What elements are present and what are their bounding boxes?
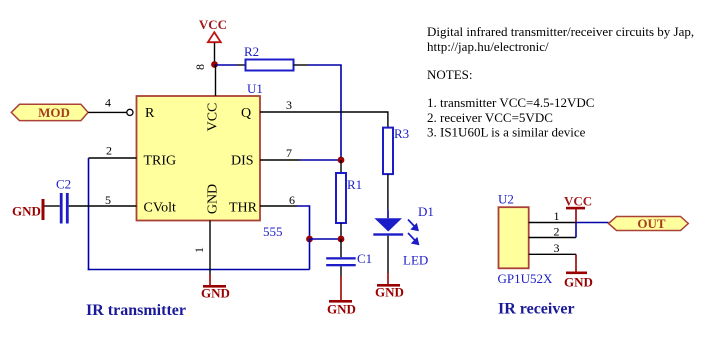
svg-text:2: 2: [554, 225, 560, 239]
wire R3 to LED: [387, 174, 389, 209]
ground GND (pin 1): [201, 285, 230, 301]
wire THR stub: [260, 205, 297, 207]
svg-text:6: 6: [289, 193, 295, 207]
svg-text:Digital infrared transmitter/r: Digital infrared transmitter/receiver ci…: [427, 24, 694, 39]
resistor R2: [244, 44, 294, 71]
wire C2 to CVolt: [69, 205, 137, 207]
svg-text:THR: THR: [229, 201, 258, 216]
svg-text:2: 2: [106, 144, 112, 158]
resistor R1: [336, 173, 362, 223]
svg-text:GND: GND: [201, 286, 230, 301]
wire VCC triangle to junction: [214, 43, 216, 65]
port flag OUT: [609, 216, 689, 231]
svg-text:3: 3: [286, 98, 292, 112]
node VCC junction dot: [211, 61, 218, 68]
wire VCC bar to pin 1: [575, 208, 577, 223]
wire MOD to R bubble: [88, 111, 127, 113]
wire U2 pin 3: [529, 253, 576, 255]
svg-text:VCC: VCC: [206, 103, 221, 132]
wire pin1 to pin2 (blue): [575, 223, 577, 238]
svg-text:1: 1: [192, 247, 206, 253]
svg-text:555: 555: [263, 224, 283, 239]
wire DIS stub: [260, 159, 300, 161]
svg-text:NOTES:: NOTES:: [427, 67, 473, 82]
svg-text:R2: R2: [244, 44, 259, 59]
IC U2 GP1U52X body: [498, 192, 554, 287]
wire bottom feedback horizontal: [88, 269, 310, 271]
svg-text:OUT: OUT: [637, 216, 666, 231]
wire THR to junction: [297, 206, 310, 239]
wire junction to C1: [340, 239, 342, 257]
wire TRIG stub: [89, 157, 137, 159]
wire TRIG feedback vertical: [88, 158, 90, 270]
ground GND (LED): [375, 284, 404, 300]
svg-text:5: 5: [105, 193, 111, 207]
svg-text:VCC: VCC: [564, 194, 592, 209]
svg-text:GND: GND: [12, 204, 41, 219]
ground GND (left, at C2): [12, 199, 45, 220]
node R1/C1 junction dot: [338, 236, 345, 243]
svg-text:U2: U2: [498, 192, 514, 207]
svg-text:GND: GND: [206, 184, 221, 214]
svg-text:MOD: MOD: [38, 105, 70, 120]
svg-text:R: R: [145, 106, 155, 121]
svg-text:http://jap.hu/electronic/: http://jap.hu/electronic/: [427, 39, 549, 54]
wire pin 3 to ground: [575, 254, 577, 272]
svg-text:2. receiver VCC=5VDC: 2. receiver VCC=5VDC: [427, 110, 553, 125]
capacitor C2: [56, 177, 71, 224]
svg-text:LED: LED: [403, 253, 428, 268]
wire DIS to R1: [340, 160, 342, 173]
wire Q pin 3 to R3: [260, 112, 388, 128]
svg-text:CVolt: CVolt: [144, 201, 177, 216]
ground GND (receiver): [564, 272, 593, 290]
resistor R3: [383, 126, 409, 174]
wire IC pin 1 down: [209, 221, 211, 275]
port flag MOD: [11, 104, 88, 120]
wire R2 to DIS (blue): [308, 65, 341, 160]
wire IC VCC pin stub: [215, 65, 217, 97]
svg-text:IR transmitter: IR transmitter: [86, 302, 186, 319]
node THR junction dot: [306, 236, 313, 243]
wire pin1 to OUT: [576, 222, 609, 224]
wire LED to ground: [387, 236, 389, 273]
wire junction to junction horizontal: [310, 238, 342, 240]
IC U1 555 body: [137, 81, 283, 239]
wire R2 right stub: [294, 64, 309, 66]
svg-text:C2: C2: [56, 177, 71, 192]
svg-text:3: 3: [554, 241, 560, 255]
svg-text:D1: D1: [418, 204, 434, 219]
inversion bubble pin 4: [127, 109, 133, 115]
LED D1: [373, 204, 434, 244]
svg-text:1: 1: [554, 209, 560, 223]
svg-text:R3: R3: [394, 126, 409, 141]
notes text block: [427, 24, 694, 140]
capacitor C1: [326, 251, 372, 266]
node DIS junction dot: [338, 157, 345, 164]
wire R1 to junction: [340, 223, 342, 239]
svg-text:1. transmitter VCC=4.5-12VDC: 1. transmitter VCC=4.5-12VDC: [427, 95, 594, 110]
wire THR junction down to feedback: [309, 239, 311, 270]
svg-text:Q: Q: [241, 106, 251, 121]
svg-text:4: 4: [105, 96, 111, 110]
svg-text:GND: GND: [327, 302, 356, 317]
svg-text:7: 7: [286, 146, 292, 160]
ground GND (C1): [327, 300, 356, 317]
wire U2 pin 2: [529, 237, 576, 239]
wire C1 to ground: [340, 266, 342, 276]
svg-text:VCC: VCC: [199, 17, 227, 32]
svg-text:GND: GND: [375, 285, 404, 300]
svg-text:3. IS1U60L is a similar device: 3. IS1U60L is a similar device: [427, 125, 586, 140]
svg-text:R1: R1: [347, 177, 362, 192]
svg-text:U1: U1: [247, 81, 263, 96]
svg-text:TRIG: TRIG: [144, 154, 177, 169]
svg-text:8: 8: [193, 64, 207, 70]
svg-text:DIS: DIS: [231, 154, 254, 169]
svg-text:GP1U52X: GP1U52X: [498, 271, 554, 286]
power symbol VCC (transmitter): [199, 17, 227, 42]
wire junction to R2: [215, 64, 238, 66]
svg-text:C1: C1: [357, 251, 372, 266]
svg-text:IR receiver: IR receiver: [498, 301, 575, 318]
svg-text:GND: GND: [564, 275, 593, 290]
wire U2 pin 1: [529, 222, 576, 224]
wire GND to C2: [45, 205, 60, 207]
power symbol VCC (receiver): [564, 194, 592, 210]
